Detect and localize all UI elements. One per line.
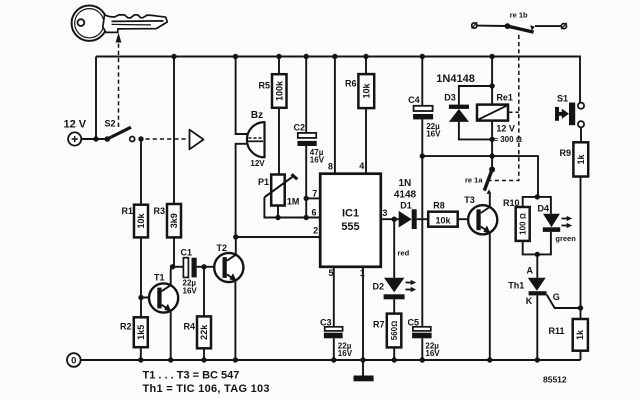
wire P1 bottom leg bbox=[277, 206, 279, 218]
svg-text:Re1: Re1 bbox=[496, 93, 513, 103]
wire pin7 line bbox=[306, 197, 320, 199]
svg-text:red: red bbox=[398, 249, 410, 258]
svg-text:16V: 16V bbox=[183, 287, 198, 296]
diode D3 with label 1N4148 bbox=[436, 73, 475, 122]
12V supply terminal bbox=[64, 119, 87, 146]
wire rail to R6 bbox=[365, 57, 367, 75]
wire node down to Th1 anode bbox=[536, 254, 538, 277]
svg-text:555: 555 bbox=[341, 221, 359, 233]
svg-text:1M: 1M bbox=[287, 196, 300, 206]
svg-text:S2: S2 bbox=[105, 119, 116, 129]
svg-text:R6: R6 bbox=[345, 79, 357, 89]
transistor T3 bbox=[464, 195, 497, 234]
svg-text:85512: 85512 bbox=[543, 375, 567, 385]
resistor R8 bbox=[428, 201, 458, 227]
led D4 green bbox=[538, 204, 577, 244]
junction C4/node line bbox=[420, 153, 425, 158]
svg-text:16V: 16V bbox=[310, 156, 325, 165]
wire Th1 cathode to 0 rail bbox=[536, 295, 538, 360]
svg-text:G: G bbox=[553, 292, 560, 302]
transistor T1 bbox=[149, 273, 178, 313]
svg-text:16V: 16V bbox=[425, 349, 440, 358]
thyristor Th1 bbox=[508, 266, 560, 306]
svg-text:4: 4 bbox=[359, 161, 364, 171]
junction rail/R5 bbox=[276, 54, 281, 59]
svg-text:≈ 300 Ω: ≈ 300 Ω bbox=[494, 135, 522, 144]
svg-text:12 V: 12 V bbox=[496, 124, 515, 134]
junction 0/T2 bbox=[233, 357, 238, 362]
junction pin3/D2 bbox=[392, 217, 397, 222]
wire buzzer to T2 collector node bbox=[236, 144, 248, 237]
svg-text:8: 8 bbox=[328, 162, 333, 172]
wire T2 emitter to 0 rail bbox=[234, 281, 236, 361]
svg-text:T3: T3 bbox=[464, 195, 475, 205]
wire C4 down to node line (crosses pin3 wire) and to C5 bbox=[421, 119, 423, 326]
junction P1 bottom bbox=[275, 215, 280, 220]
svg-text:R3: R3 bbox=[153, 206, 165, 216]
svg-text:Th1: Th1 bbox=[508, 280, 524, 290]
capacitor C1 bbox=[181, 248, 198, 296]
svg-text:R2: R2 bbox=[120, 322, 132, 332]
resistor R10 bbox=[503, 198, 530, 241]
wire node down to R10/D4 bracket bbox=[537, 196, 539, 198]
svg-text:C2: C2 bbox=[294, 123, 306, 133]
svg-text:R11: R11 bbox=[548, 326, 564, 336]
ground bbox=[354, 360, 374, 381]
junction R3/C1/T1 collector bbox=[170, 264, 175, 269]
svg-text:10k: 10k bbox=[361, 83, 371, 99]
resistor R11 bbox=[548, 319, 587, 351]
svg-text:2: 2 bbox=[313, 226, 318, 236]
svg-text:16V: 16V bbox=[338, 349, 353, 358]
junction C2/pin6 bbox=[304, 215, 309, 220]
wire rail down to buzzer bbox=[236, 57, 248, 135]
wire P1 wiper to pin6 line bbox=[264, 197, 278, 217]
diode D1 bbox=[394, 178, 417, 229]
wire S1 to R9 bbox=[580, 127, 582, 142]
svg-text:S1: S1 bbox=[557, 94, 568, 104]
junction R10/D4 top bbox=[535, 194, 540, 199]
wire rail down to R5 bbox=[278, 57, 280, 75]
svg-text:T1 . . . T3 = BC 547: T1 . . . T3 = BC 547 bbox=[143, 370, 240, 382]
wire R8 to T3 base bbox=[458, 218, 477, 220]
wire D3 bottom to Re1 bottom node bbox=[459, 122, 492, 139]
junction Re1 top bbox=[489, 83, 494, 88]
svg-text:T1: T1 bbox=[154, 273, 165, 283]
svg-text:10k: 10k bbox=[435, 216, 451, 226]
junction rail/C4 bbox=[420, 54, 425, 59]
wire C3 to 0 rail bbox=[333, 338, 335, 360]
svg-text:1k: 1k bbox=[575, 329, 585, 340]
svg-text:A: A bbox=[527, 266, 534, 276]
svg-text:0: 0 bbox=[71, 356, 76, 367]
svg-text:6: 6 bbox=[311, 208, 316, 218]
junction 0/C5 bbox=[420, 357, 425, 362]
wire C2 down to pin6/pin7 node bbox=[305, 146, 307, 218]
wire rail down to C4 bbox=[421, 57, 423, 106]
relay contact re 1a bbox=[465, 167, 495, 191]
junction rail/C2 bbox=[304, 54, 309, 59]
svg-text:re 1a: re 1a bbox=[465, 175, 483, 184]
wire R5 to P1 bbox=[278, 108, 280, 175]
svg-text:16V: 16V bbox=[426, 130, 441, 139]
wire D3 top to Re1 top node bbox=[459, 86, 492, 105]
junction R10/D4 bottom bbox=[535, 252, 540, 257]
wire pin1 down to 0 rail bbox=[362, 267, 364, 360]
junction rail/pin8 bbox=[332, 54, 337, 59]
wire R1 to R2 bbox=[140, 237, 142, 317]
svg-text:4148: 4148 bbox=[394, 190, 417, 201]
svg-text:22k: 22k bbox=[199, 324, 209, 340]
wire D2 to R7 bbox=[393, 299, 395, 313]
resistor R4 bbox=[183, 316, 211, 348]
junction 0/R2 bbox=[138, 357, 143, 362]
capacitor C5 bbox=[408, 318, 441, 359]
resistor R2 bbox=[120, 317, 148, 347]
svg-text:1N4148: 1N4148 bbox=[436, 73, 475, 85]
junction T1 base node bbox=[138, 295, 143, 300]
junction rail/Re1 bbox=[489, 54, 494, 59]
svg-text:green: green bbox=[555, 234, 576, 243]
wire R7 to 0 rail bbox=[393, 347, 395, 360]
junction 0/T1 bbox=[168, 357, 173, 362]
buzzer Bz bbox=[247, 110, 265, 168]
svg-text:1k5: 1k5 bbox=[136, 325, 146, 340]
svg-text:100k: 100k bbox=[275, 80, 285, 101]
svg-text:C1: C1 bbox=[181, 248, 193, 258]
svg-text:560Ω: 560Ω bbox=[390, 321, 399, 341]
dashed link to relay coil bbox=[508, 111, 519, 113]
junction 0/Th1 bbox=[535, 357, 540, 362]
junction rail/R3 bbox=[171, 54, 176, 59]
re1a fixed contact tick bbox=[487, 189, 492, 194]
wire bottom bracket bbox=[523, 232, 551, 255]
pushbutton S1 bbox=[555, 94, 584, 128]
resistor R7 bbox=[373, 314, 401, 348]
junction T2 collector / pin2 bbox=[233, 234, 238, 239]
wire pin8 bbox=[334, 57, 336, 174]
wire left vertical from top rail bbox=[95, 57, 97, 140]
wire pin5 down to C3 bbox=[333, 267, 335, 327]
wire R11 to 0 rail bbox=[580, 351, 582, 360]
resistor R9 bbox=[559, 142, 588, 176]
junction 12V node bbox=[93, 136, 98, 141]
potentiometer P1 bbox=[258, 174, 299, 206]
svg-text:Bz: Bz bbox=[251, 110, 263, 121]
resistor R3 bbox=[153, 204, 181, 237]
svg-text:12 V: 12 V bbox=[64, 119, 87, 131]
wire rail down through Re1 to re1a pivot bbox=[491, 57, 493, 105]
op IC1 555 timer bbox=[320, 174, 381, 267]
wire pin2 line bbox=[236, 236, 320, 238]
svg-text:R8: R8 bbox=[433, 201, 445, 211]
junction 0/R7 bbox=[392, 357, 397, 362]
junction 0/pin1 bbox=[360, 357, 365, 362]
svg-text:Th1 = TIC 106, TAG 103: Th1 = TIC 106, TAG 103 bbox=[143, 383, 270, 395]
svg-text:R1: R1 bbox=[121, 206, 133, 216]
svg-text:3k9: 3k9 bbox=[169, 213, 179, 228]
wire D1 to R8 bbox=[417, 218, 429, 220]
relay contact re 1b bbox=[472, 11, 567, 32]
svg-text:R5: R5 bbox=[258, 81, 270, 91]
svg-text:5: 5 bbox=[328, 268, 333, 278]
junction C2/pin7 bbox=[304, 196, 309, 201]
transistor T2 bbox=[214, 243, 243, 282]
svg-text:100 Ω: 100 Ω bbox=[519, 213, 528, 235]
svg-text:C4: C4 bbox=[408, 95, 420, 105]
resistor R6 bbox=[345, 74, 374, 108]
wire R4 to 0 rail bbox=[203, 348, 205, 360]
dashed mechanical link re1a bbox=[488, 33, 519, 181]
wire pin3 node down to D2 bbox=[393, 219, 395, 278]
svg-text:10k: 10k bbox=[136, 213, 146, 229]
0 rail bbox=[81, 359, 581, 361]
capacitor C4 bbox=[408, 95, 441, 139]
wire top bracket bbox=[523, 197, 551, 214]
junction gate/R11 bbox=[578, 305, 583, 310]
wire T2 collector up to pin2 node bbox=[235, 237, 237, 256]
dashed wire to arrow bbox=[146, 138, 190, 140]
resistor R1 bbox=[121, 205, 148, 238]
wire T3 collector up to re1a contact bbox=[489, 194, 491, 208]
wire T1 collector bbox=[170, 269, 172, 287]
wire S2 node down to R1 bbox=[140, 139, 142, 205]
svg-text:R9: R9 bbox=[559, 148, 571, 158]
junction node/Re1 vertical bbox=[489, 153, 494, 158]
wire C5 to 0 rail bbox=[421, 338, 423, 360]
svg-text:D1: D1 bbox=[400, 201, 412, 211]
wire rail down to R3 bbox=[173, 57, 175, 205]
relay coil Re1 bbox=[477, 93, 522, 145]
junction Re1 bottom bbox=[489, 137, 494, 142]
switch S2 bbox=[105, 119, 135, 142]
wire T1 emitter to 0 rail bbox=[170, 311, 172, 360]
svg-text:3: 3 bbox=[382, 208, 387, 218]
wire 12V terminal to S2 bbox=[81, 138, 107, 140]
wire C1 to T2 base node bbox=[197, 266, 223, 268]
junction S2 output node bbox=[138, 136, 143, 141]
svg-text:R7: R7 bbox=[373, 320, 385, 330]
junction 0/C3 bbox=[331, 357, 336, 362]
wire rail down to C2 bbox=[305, 57, 307, 133]
junction 0/T3 bbox=[487, 357, 492, 362]
wire T1 base bbox=[141, 297, 158, 299]
top supply rail bbox=[96, 57, 580, 103]
svg-text:IC1: IC1 bbox=[342, 208, 359, 220]
wire R3 to C1 node bbox=[173, 237, 175, 266]
0 terminal bbox=[67, 353, 81, 367]
junction rail/Bz bbox=[233, 54, 238, 59]
wire node to C1 bbox=[173, 266, 184, 268]
wire Th1 gate to R11 node bbox=[547, 295, 581, 308]
svg-text:P1: P1 bbox=[258, 177, 269, 187]
key icon bbox=[72, 6, 168, 41]
junction C1/R4/T2 base bbox=[201, 264, 206, 269]
dashed link S2 to key with arrow bbox=[116, 33, 122, 127]
capacitor C2 bbox=[294, 123, 325, 165]
led D2 red bbox=[372, 249, 416, 300]
svg-text:D2: D2 bbox=[372, 282, 384, 292]
svg-text:7: 7 bbox=[312, 189, 317, 199]
wire R2 to 0 rail bbox=[140, 347, 142, 360]
junction 0/R4 bbox=[201, 357, 206, 362]
wire T3 emitter to 0 rail bbox=[489, 233, 491, 361]
junction rail/R6 bbox=[363, 54, 368, 59]
svg-text:D4: D4 bbox=[538, 204, 550, 214]
svg-text:re 1b: re 1b bbox=[510, 11, 528, 20]
svg-text:12V: 12V bbox=[250, 159, 265, 168]
wire pin6 line bbox=[278, 217, 320, 219]
svg-text:1N: 1N bbox=[399, 178, 412, 189]
svg-text:R4: R4 bbox=[183, 322, 195, 332]
capacitor C3 bbox=[320, 318, 353, 359]
resistor R5 bbox=[258, 74, 286, 108]
wire R6 to pin4 bbox=[365, 108, 367, 174]
svg-text:D3: D3 bbox=[444, 92, 456, 102]
wire pin3 to D1 bbox=[381, 218, 399, 220]
wire R9 down to gate node bbox=[580, 177, 582, 320]
wire node down to R4 bbox=[203, 267, 205, 317]
arrow symbol (to circuit) bbox=[190, 130, 204, 150]
svg-text:T2: T2 bbox=[217, 243, 228, 253]
node line C4/Re1/R10 bbox=[422, 156, 538, 197]
svg-text:1k: 1k bbox=[576, 154, 586, 165]
svg-text:K: K bbox=[526, 296, 533, 306]
